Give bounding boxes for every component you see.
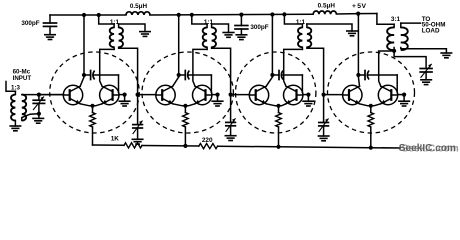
node neutralizing junction stage 4: [356, 73, 360, 77]
wire T4 primary bottom: [301, 47, 303, 49]
node emitter resistor to bottom rail stage 4: [369, 146, 373, 150]
wire Q1 collector to rail: [80, 15, 84, 86]
wire rail end to T5 primary top: [377, 14, 394, 25]
node rail-T4-primary: [282, 12, 286, 16]
transistor Q1: [63, 85, 82, 104]
wire Q8 collector to T5 primary: [379, 51, 394, 86]
wire emitters junction stage 1: [80, 104, 102, 106]
node rail-stage3-neutralizing: [270, 12, 274, 16]
label 50-OHM: [422, 22, 446, 29]
transformer T5 secondary coil: [401, 23, 408, 50]
svg-text:SeekIC.com: SeekIC.com: [399, 143, 456, 154]
resistor emitter RE3: [276, 106, 282, 147]
label C2 300pF: [250, 24, 268, 31]
svg-text:0.5μH: 0.5μH: [130, 3, 148, 10]
transistor-pair package outline stage 2 (dashed): [142, 52, 233, 133]
svg-text:0.5μH: 0.5μH: [318, 2, 336, 9]
transformer T4 primary coil: [298, 24, 302, 47]
svg-text:1:1: 1:1: [296, 19, 306, 26]
label +5V: [352, 3, 367, 10]
wire rail to T2 primary top: [99, 15, 114, 24]
node interstage tap 3: [322, 93, 326, 97]
node rail-stage1-neutralizing: [82, 13, 86, 17]
capacitor C1 300pF bypass: [44, 15, 57, 35]
wire 60-Mc input stub: [6, 82, 15, 92]
label L1 0.5uH: [130, 3, 148, 10]
wire CN4 to Q8 base: [396, 75, 398, 93]
wire base feed to Q5: [231, 94, 250, 96]
transformer T2 primary coil: [110, 24, 114, 47]
transistor Q5: [249, 85, 268, 104]
transformer T2 secondary coil: [119, 24, 123, 47]
node emitter junction stage 4: [369, 104, 373, 108]
label 60-Mc: [13, 68, 31, 75]
label INPUT: [13, 75, 32, 82]
svg-text:1:1: 1:1: [204, 19, 214, 26]
transistor Q4: [193, 85, 212, 104]
transistor Q7: [343, 85, 362, 104]
wire CN3 to Q6 base: [301, 75, 303, 93]
svg-text:300pF: 300pF: [21, 20, 39, 27]
node emitter junction stage 2: [183, 104, 187, 108]
ground below CT4: [318, 136, 329, 141]
wire base junction down: [217, 95, 219, 102]
wire base junction down: [124, 95, 126, 102]
node Q6 base junction: [306, 93, 310, 97]
wire Q4 collector to T3 primary: [193, 49, 207, 86]
transistor Q3: [156, 85, 175, 104]
ground at T5 secondary: [441, 53, 452, 58]
wire T1 secondary top to Q1 base: [22, 94, 64, 96]
ground below CT2: [132, 139, 143, 144]
capacitor neutralizing CN4: [358, 71, 397, 80]
node emitter junction stage 1: [90, 104, 94, 108]
transistor-pair package outline stage 4 (dashed): [328, 52, 415, 133]
svg-text:1:3: 1:3: [11, 84, 21, 91]
wire T5 secondary top to load: [401, 22, 421, 24]
label T2 ratio 1:1: [110, 19, 120, 26]
inductor L1 0.5uH: [126, 12, 150, 15]
transistor-pair package outline stage 3 (dashed): [236, 52, 316, 133]
resistor R1 1K: [124, 143, 142, 148]
ground at Q6 base: [303, 101, 314, 106]
node interstage tap 2: [229, 93, 233, 97]
capacitor CT6 output tuning (variable): [394, 51, 432, 80]
wire T1 secondary bottom to CT1: [22, 114, 39, 121]
node +5V supply: [356, 12, 360, 16]
label R2 220: [202, 137, 213, 144]
svg-text:LOAD: LOAD: [422, 27, 440, 34]
wire top supply rail: [50, 14, 377, 16]
transistor Q8: [378, 85, 397, 104]
node rail-C2: [239, 13, 243, 17]
label L2 0.5uH: [318, 2, 336, 9]
ground at Q2 base: [119, 101, 130, 106]
node Q2 base junction: [123, 93, 127, 97]
capacitor neutralizing CN3: [272, 71, 302, 80]
node input tuning cap tap: [37, 93, 41, 97]
label T1 ratio 1:3: [11, 84, 21, 91]
node interstage tap 1: [136, 93, 140, 97]
wire Q3 collector to rail: [173, 15, 179, 86]
label T3 ratio 1:1: [204, 19, 214, 26]
wire Q7 collector to rail: [358, 14, 359, 87]
wire emitters junction stage 4: [360, 104, 381, 106]
wire Q6 base to ground: [303, 94, 309, 96]
transformer T3 primary coil: [203, 24, 207, 47]
label C1 300pF: [21, 20, 39, 27]
wire Q8 base to ground: [398, 94, 404, 96]
wire emitters junction stage 2: [173, 104, 195, 106]
ground below CT6: [421, 80, 432, 85]
wire CN2 to Q4 base: [210, 75, 212, 93]
svg-text:1K: 1K: [111, 136, 120, 143]
node neutralizing junction stage 3: [270, 73, 274, 77]
ground at T2 secondary top: [140, 32, 150, 37]
wire base feed to Q7: [324, 94, 343, 96]
capacitor neutralizing CN2: [179, 71, 212, 80]
capacitor neutralizing CN1: [84, 71, 119, 80]
wire T3 secondary top to ground: [212, 24, 229, 33]
wire CT1 to ground: [38, 114, 40, 119]
svg-text:220: 220: [202, 137, 213, 144]
node rail-stage2-neutralizing: [177, 13, 181, 17]
capacitor tuning CT3 (variable): [226, 95, 236, 136]
wire Q4 base to ground: [212, 94, 218, 96]
svg-text:300pF: 300pF: [250, 24, 268, 31]
transistor Q2: [100, 85, 119, 104]
resistor emitter RE2: [183, 106, 189, 146]
wire T3 primary bottom: [206, 47, 208, 49]
transistor-pair package outline stage 1 (dashed): [50, 52, 140, 133]
wire T3 secondary bottom to next base: [212, 47, 231, 94]
wire T2 primary bottom: [113, 47, 115, 49]
ground below T1 primary: [10, 126, 20, 131]
label TO: [422, 16, 431, 23]
wire base feed to Q3: [138, 94, 156, 96]
ground below C1: [45, 35, 55, 40]
capacitor tuning CT2 (variable): [133, 95, 143, 140]
wire T4 secondary bottom to next base: [307, 47, 324, 94]
capacitor CT1 input tuning (variable): [33, 95, 44, 114]
svg-text:INPUT: INPUT: [13, 75, 32, 82]
wire base feed to Q1: [39, 94, 63, 96]
wire T4 secondary top to ground: [307, 24, 352, 31]
resistor emitter RE1: [90, 106, 96, 145]
wire bottom rail: [93, 145, 401, 148]
ground at Q8 base: [399, 101, 410, 106]
transistor Q6: [284, 85, 303, 104]
transformer T1 secondary coil: [22, 95, 26, 121]
wire rail to T4 primary top: [284, 14, 302, 24]
resistor emitter RE4: [368, 106, 374, 148]
node T5 primary bottom: [392, 49, 396, 53]
ground at T4 secondary top: [347, 31, 357, 36]
label T5 ratio 3:1: [391, 16, 401, 23]
svg-text:1:1: 1:1: [110, 19, 120, 26]
transformer T3 secondary coil: [212, 24, 216, 47]
wire emitters junction stage 3: [266, 104, 286, 106]
node Q4 base junction: [215, 93, 219, 97]
wire Q5 collector to rail: [266, 15, 272, 86]
node emitter junction stage 3: [276, 104, 280, 108]
ground below C2: [236, 35, 247, 40]
svg-text:3:1: 3:1: [391, 16, 401, 23]
label LOAD: [422, 27, 440, 34]
wire T1 primary bottom to ground: [14, 120, 16, 126]
node rail-T3-primary: [190, 13, 194, 17]
node rail-T2-primary: [97, 13, 101, 17]
node Q8 base junction: [402, 93, 406, 97]
node emitter resistor to bottom rail stage 3: [276, 145, 280, 149]
node neutralizing junction stage 2: [177, 73, 181, 77]
label T4 ratio 1:1: [296, 19, 306, 26]
watermark SeekIC.com: [399, 143, 459, 155]
node CT1 bottom: [37, 112, 41, 116]
node neutralizing junction stage 1: [82, 73, 86, 77]
wire base junction down: [403, 95, 405, 102]
transformer T5 primary coil: [387, 24, 394, 50]
wire T5 primary bottom junction: [393, 48, 395, 52]
wire Q2 collector to T2 primary: [100, 49, 114, 86]
wire Q6 collector to T4 primary: [284, 49, 303, 86]
wire T2 secondary top to ground: [119, 24, 145, 32]
svg-text:+ 5V: + 5V: [352, 3, 367, 10]
inductor L2 0.5uH: [313, 11, 336, 14]
wire T2 secondary bottom to next base: [119, 47, 138, 94]
ground at T3 secondary top: [223, 33, 234, 38]
transformer T4 secondary coil: [307, 24, 311, 47]
label R1 1K: [111, 136, 120, 143]
node emitter resistor to bottom rail stage 2: [183, 144, 187, 148]
ground below CT1: [33, 118, 44, 123]
ground at Q4 base: [212, 101, 223, 106]
wire CN1 to Q2 base: [118, 75, 120, 93]
wire Q2 base to ground: [119, 94, 125, 96]
capacitor C2 300pF bypass: [235, 15, 248, 35]
resistor R2 220: [199, 144, 218, 149]
ground below CT3: [225, 136, 236, 141]
capacitor tuning CT4 (variable): [319, 95, 329, 136]
wire rail to T3 primary top: [192, 15, 207, 24]
wire base junction down: [307, 95, 309, 102]
transformer T1 primary coil: [11, 91, 15, 120]
wire T5 secondary bottom to ground: [401, 48, 447, 54]
